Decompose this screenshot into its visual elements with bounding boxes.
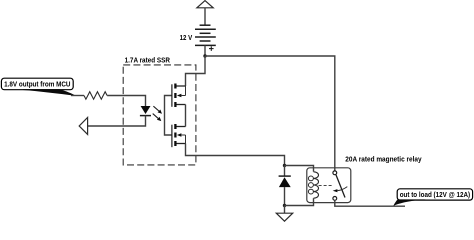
wire: switch bottom to load	[335, 200, 405, 206]
battery V1	[195, 25, 216, 45]
wire: relay coil bottom to ground junction	[285, 198, 314, 205]
mosfet M1 (top)	[172, 84, 186, 108]
wire: arrow to battery top	[204, 8, 206, 25]
wire: LED cathode return	[88, 116, 146, 126]
battery plus sign	[209, 46, 214, 51]
node: battery junction	[203, 54, 206, 57]
svg-text:1.8V output from MCU: 1.8V output from MCU	[4, 81, 70, 88]
wire: M2 source to bottom rail	[186, 144, 285, 166]
wire: junction to diode cathode	[284, 166, 286, 177]
relay switch terminal (bottom)	[333, 197, 337, 201]
wire: label to resistor	[71, 95, 84, 97]
wire: gate rail joining M1,M2 gates	[165, 96, 172, 136]
node: ground junction	[283, 204, 286, 207]
net label: out to load (12V @ 12A)	[397, 189, 472, 200]
wire: battery bottom to junction	[204, 45, 206, 56]
ground	[276, 213, 292, 221]
net arrow to MCU (left)	[79, 118, 87, 135]
wire: junction to ground symbol	[284, 206, 286, 214]
wire: junction to relay coil top	[285, 166, 314, 172]
wire: M1 drain to M2 drain	[185, 105, 187, 127]
label tail (black flag)	[23, 89, 76, 96]
mosfet M2 (bottom)	[172, 124, 186, 147]
wire: junction down into SSR to M1 source	[186, 56, 206, 86]
relay switch blade	[336, 175, 345, 198]
relay actuation arrow	[338, 187, 348, 191]
label tail (black flag, load)	[393, 199, 425, 206]
diode D2 (flyback)	[279, 175, 291, 177]
opto LED D1	[141, 106, 151, 114]
relay actuation dashed link	[319, 185, 332, 187]
relay coil L1	[314, 172, 319, 198]
wire: diode anode to ground junction	[284, 187, 286, 205]
wire: top rail to relay switch	[205, 56, 335, 171]
svg-text:12 V: 12 V	[180, 35, 193, 42]
opto light arrow 2	[153, 114, 159, 119]
node: diode/coil junction	[283, 164, 286, 167]
svg-text:20A rated magnetic relay: 20A rated magnetic relay	[345, 156, 421, 163]
svg-text:out to load (12V @ 12A): out to load (12V @ 12A)	[400, 192, 470, 199]
opto light arrow 1	[153, 106, 159, 111]
power net arrow (top)	[197, 1, 213, 8]
wire: resistor to LED anode	[107, 96, 145, 107]
SSR enclosure (dashed)	[123, 65, 196, 165]
net label: 1.8V output from MCU	[1, 78, 73, 90]
relay switch terminal (top)	[333, 171, 337, 175]
svg-text:1.7A rated SSR: 1.7A rated SSR	[125, 58, 170, 65]
resistor R1	[84, 92, 107, 100]
relay K1 enclosure	[307, 168, 351, 203]
